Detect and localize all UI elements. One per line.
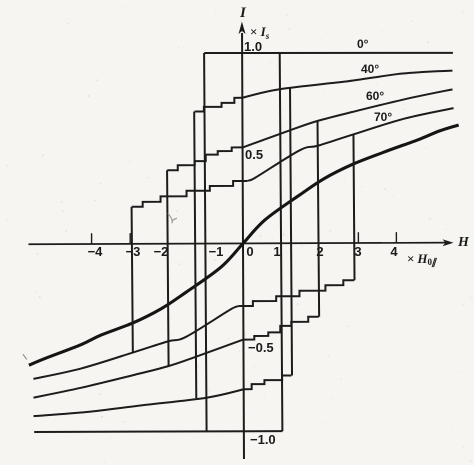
- tick 3: [357, 232, 359, 243]
- 0-deg loop bottom line I=-1.0: [34, 430, 282, 433]
- jump vertical V2' (60-deg, H=+1.97): [318, 121, 320, 317]
- 40-deg upper curve: [243, 71, 453, 98]
- label 0.5: [245, 147, 263, 162]
- label x I_s: [250, 24, 269, 41]
- y-axis arrowhead: [239, 21, 246, 34]
- tick -3: [129, 233, 131, 244]
- label H (x-axis): [458, 235, 469, 251]
- 40-deg lower curve: [33, 389, 243, 416]
- staircase S2' (60-deg lower-right): [243, 317, 319, 340]
- faint scratch near thick curve tip: [23, 354, 27, 359]
- curve label 0 deg: [357, 37, 368, 51]
- jump vertical V2 (60-deg, H=-1.97): [167, 170, 169, 366]
- staircase S1' (70-deg lower-right): [239, 280, 355, 306]
- 60-deg upper curve: [243, 89, 453, 147]
- label -0.5: [248, 340, 274, 355]
- thick 90-deg S-curve through origin: [28, 125, 459, 365]
- 0-deg loop top line I=1.0: [204, 52, 453, 53]
- jump vertical V1' (70-deg, H=+2.9): [353, 135, 354, 281]
- tick label 3: [354, 244, 361, 259]
- 70-deg upper curve: [247, 108, 454, 181]
- faint pencil squiggle artifact: [168, 213, 177, 223]
- tick label -1: [209, 244, 224, 259]
- tick label 4: [390, 244, 397, 259]
- tick label -4: [88, 244, 103, 259]
- curve label 70 deg: [374, 110, 392, 124]
- curve label 60 deg: [366, 89, 384, 103]
- label x H_0parallel: [407, 251, 437, 268]
- y-axis: [242, 33, 244, 459]
- 0-deg loop right vertical at H=+1: [280, 53, 283, 431]
- tick label 0: [246, 244, 253, 259]
- tick label -2: [154, 244, 169, 259]
- label 1.0: [244, 39, 262, 54]
- label I (y-axis): [240, 5, 246, 22]
- staircase S1 (70-deg upper-left): [132, 181, 248, 207]
- 60-deg lower curve: [33, 340, 243, 398]
- label -1.0: [250, 432, 276, 447]
- jump vertical V1 (70-deg, H=-2.9): [132, 207, 133, 353]
- curve label 40 deg: [361, 62, 379, 76]
- x-axis arrowhead: [442, 239, 453, 246]
- 0-deg loop left vertical at H=-1: [204, 53, 206, 431]
- tick -4: [91, 233, 93, 244]
- staircase S3 (40-deg upper-left): [195, 98, 243, 112]
- tick 4: [395, 232, 397, 243]
- staircase S3' (40-deg lower-right): [243, 375, 291, 389]
- tick label 2: [316, 244, 323, 259]
- x-axis: [29, 243, 447, 245]
- tick label 1: [273, 244, 280, 259]
- jump vertical V3 (40-deg, H=-1.25): [194, 112, 196, 399]
- 70-deg lower curve: [33, 306, 239, 379]
- tick label -3: [126, 244, 141, 259]
- jump vertical V3' (40-deg, H=+1.25): [290, 87, 292, 375]
- staircase S2 (60-deg upper-left): [167, 147, 243, 170]
